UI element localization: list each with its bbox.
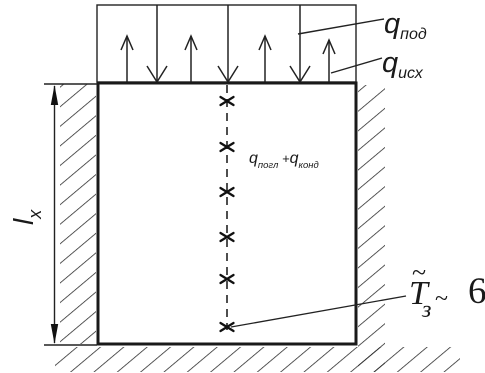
centerline dashed — [226, 85, 228, 330]
down arrow 1 (divider) — [147, 5, 167, 82]
down arrow 3 (divider) — [290, 5, 310, 82]
up arrow 4 — [323, 40, 335, 82]
dimension extension line bottom — [44, 344, 97, 346]
dimension line l_x — [54, 86, 56, 343]
x mark 6 — [221, 323, 234, 331]
wall hatching left — [60, 84, 96, 344]
leader line q_isx — [331, 58, 382, 73]
up arrow 3 — [259, 36, 271, 82]
dimension arrowhead bottom — [51, 324, 58, 344]
down arrow 2 (divider, center) — [218, 5, 238, 82]
x mark 2 — [221, 143, 234, 151]
svg-text:6: 6 — [468, 271, 485, 312]
dimension arrowhead top — [51, 85, 58, 105]
up arrow 2 — [185, 36, 197, 82]
dimension extension line top — [44, 83, 97, 85]
svg-text:qпод: qпод — [384, 8, 427, 43]
label l_x (rotated) — [8, 209, 45, 225]
svg-text:з: з — [421, 297, 431, 323]
up arrow 1 — [121, 36, 133, 82]
x mark 5 — [221, 275, 234, 283]
svg-text:qисх: qисх — [382, 47, 424, 82]
top flux box — [97, 5, 356, 82]
svg-text:~: ~ — [412, 258, 426, 287]
leader line q_pod — [298, 19, 384, 34]
leader line T_3 — [231, 296, 406, 327]
wall hatching right — [358, 85, 385, 372]
main body square — [98, 83, 356, 344]
x mark 3 — [221, 188, 234, 196]
x mark 1 — [221, 97, 234, 105]
wall hatching bottom — [55, 347, 460, 372]
x mark 4 — [221, 233, 234, 241]
svg-text:lx: lx — [8, 209, 45, 225]
svg-text:~: ~ — [435, 286, 448, 312]
